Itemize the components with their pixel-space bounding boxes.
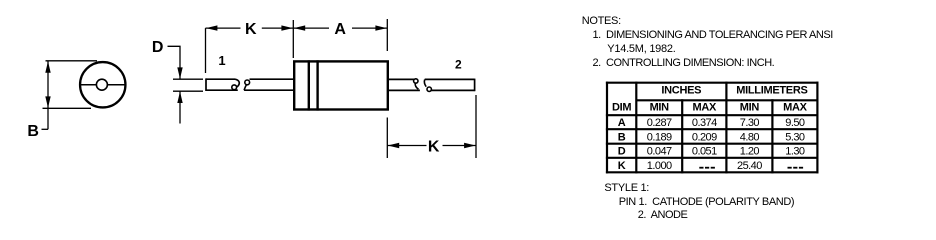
dash MAX millimeters K row <box>788 167 804 169</box>
dimension line K top and A <box>206 27 388 29</box>
label A <box>329 21 352 38</box>
svg-text:MAX: MAX <box>693 102 718 114</box>
lead 2 break curl B <box>424 80 426 87</box>
label K top <box>241 21 262 38</box>
svg-text:A: A <box>334 21 346 38</box>
dimension line K bottom <box>387 145 476 147</box>
svg-text:B: B <box>618 132 626 144</box>
extension line B bottom <box>43 107 92 109</box>
note 1 line 2 <box>607 43 675 56</box>
label B leader <box>42 128 49 130</box>
svg-text:0.209: 0.209 <box>692 132 717 144</box>
svg-text:0.047: 0.047 <box>647 146 672 158</box>
extension line D top <box>173 78 203 80</box>
svg-text:0.374: 0.374 <box>692 117 717 129</box>
arrow K bottom left <box>388 143 400 148</box>
lead 1 segment B <box>244 79 294 90</box>
svg-text:DIM: DIM <box>612 102 631 114</box>
lead 1 break curl B <box>244 84 247 90</box>
svg-text:2: 2 <box>455 58 462 72</box>
lead 2 segment A <box>388 79 420 90</box>
lead 1 segment A <box>206 78 238 91</box>
extension line B top <box>46 60 98 62</box>
style pin 2 <box>638 209 688 222</box>
arrow D up shaft <box>179 91 181 123</box>
svg-text:A: A <box>618 117 626 129</box>
svg-text:0.287: 0.287 <box>647 117 672 129</box>
arrow K top left <box>206 25 218 30</box>
extension line A right <box>386 19 388 51</box>
svg-text:MILLIMETERS: MILLIMETERS <box>736 85 807 97</box>
label D leader <box>168 46 181 79</box>
extension line K/A center <box>292 20 294 58</box>
note 1 line 1 <box>593 29 833 42</box>
svg-text:0.051: 0.051 <box>692 146 717 158</box>
svg-text:MIN: MIN <box>650 102 670 114</box>
style pin 1 <box>619 196 794 209</box>
extension line K bottom left <box>386 118 388 159</box>
notes heading <box>582 15 621 28</box>
svg-text:7.30: 7.30 <box>740 117 760 129</box>
svg-text:K: K <box>618 160 626 172</box>
arrow D down <box>177 67 182 79</box>
arrow B down <box>45 96 50 108</box>
arrow A right <box>375 25 387 30</box>
dimension table text <box>612 85 808 173</box>
svg-text:25.40: 25.40 <box>737 160 762 172</box>
svg-text:1: 1 <box>218 53 225 68</box>
polarity band line 1 <box>308 60 310 110</box>
extension line K bottom right <box>475 95 477 158</box>
svg-text:1.20: 1.20 <box>740 146 760 158</box>
end view lead circle <box>96 79 107 90</box>
style heading <box>604 182 649 195</box>
svg-text:1.30: 1.30 <box>785 146 805 158</box>
svg-text:5.30: 5.30 <box>785 132 805 144</box>
svg-text:K: K <box>428 139 440 156</box>
svg-text:B: B <box>27 123 39 140</box>
dash MAX inches K row <box>699 167 715 169</box>
svg-text:MIN: MIN <box>740 102 760 114</box>
svg-text:D: D <box>152 39 164 56</box>
svg-text:K: K <box>245 21 257 38</box>
svg-text:INCHES: INCHES <box>661 85 701 97</box>
extension line D bottom <box>173 90 203 92</box>
svg-text:MAX: MAX <box>783 102 808 114</box>
polarity band line 2 <box>316 60 318 110</box>
svg-text:4.80: 4.80 <box>740 132 760 144</box>
svg-text:1.000: 1.000 <box>647 160 672 172</box>
svg-text:9.50: 9.50 <box>785 117 805 129</box>
lead 2 break curl A <box>414 79 418 83</box>
diode body <box>294 61 388 109</box>
lead 1 break curl A <box>236 79 240 87</box>
arrow D up <box>177 92 182 104</box>
label K bottom <box>427 138 443 155</box>
arrow K top right <box>281 25 293 30</box>
lead 2 segment B <box>425 79 475 92</box>
dimension table grid <box>606 82 819 174</box>
arrow K bottom right <box>464 143 476 148</box>
note 2 <box>593 57 775 70</box>
end view diameter line <box>80 84 126 86</box>
extension line K top left <box>205 28 207 73</box>
svg-text:D: D <box>618 146 626 158</box>
end view body circle <box>80 62 125 107</box>
svg-text:0.189: 0.189 <box>647 132 672 144</box>
arrow A left <box>294 25 306 30</box>
dimension line B <box>47 61 49 130</box>
arrow B up <box>45 61 50 72</box>
